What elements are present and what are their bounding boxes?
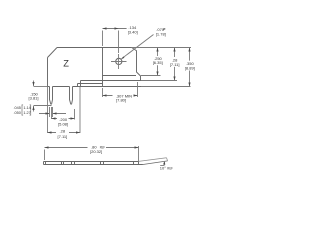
svg-text:1.27: 1.27: [23, 111, 30, 115]
svg-text:1.14: 1.14: [23, 106, 30, 110]
svg-text:[8.89]: [8.89]: [185, 66, 195, 71]
svg-text:[3.81]: [3.81]: [29, 96, 39, 101]
svg-text:10°: 10°: [160, 165, 166, 170]
svg-text:[7.11]: [7.11]: [58, 134, 68, 139]
svg-text:.28: .28: [60, 128, 66, 133]
svg-text:REF: REF: [167, 165, 173, 170]
svg-text:[6.35]: [6.35]: [153, 60, 163, 65]
svg-text:[5.08]: [5.08]: [58, 121, 68, 126]
svg-text:[3.40]: [3.40]: [128, 29, 138, 34]
svg-text:Z: Z: [63, 59, 69, 69]
svg-text:[7.11]: [7.11]: [170, 62, 180, 67]
svg-text:[7.80]: [7.80]: [116, 98, 126, 103]
svg-text:[1.78]: [1.78]: [156, 31, 166, 36]
svg-text:.050: .050: [14, 111, 21, 115]
svg-text:[20.32]: [20.32]: [90, 149, 102, 154]
svg-text:.045: .045: [14, 106, 21, 110]
